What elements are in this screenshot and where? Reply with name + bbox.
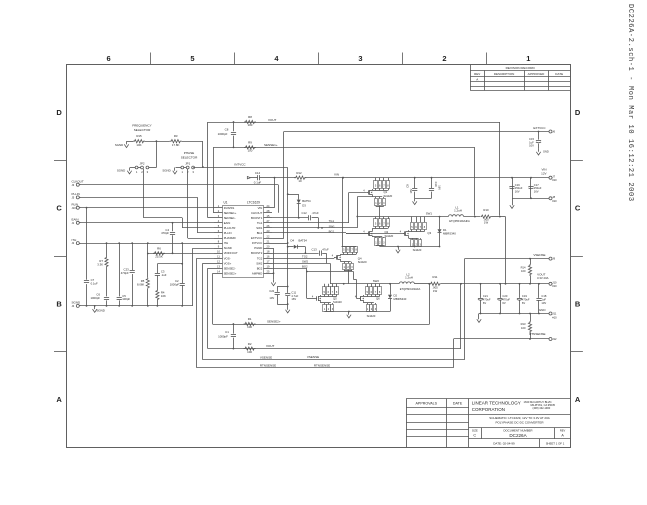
svg-text:AMPMD: AMPMD	[252, 271, 262, 275]
svg-text:BG1: BG1	[257, 231, 263, 235]
svg-text:EXTVCC: EXTVCC	[533, 126, 546, 130]
svg-text:EAIN: EAIN	[224, 221, 231, 225]
svg-text:1000pF: 1000pF	[170, 283, 180, 287]
svg-text:Q6: Q6	[376, 297, 380, 301]
svg-text:REV: REV	[560, 428, 566, 432]
svg-text:BOOST1: BOOST1	[251, 216, 263, 220]
svg-text:Si4420: Si4420	[413, 248, 422, 252]
svg-text:POLYPHASE DC-DC CONVERTER: POLYPHASE DC-DC CONVERTER	[495, 420, 544, 424]
svg-text:J10: J10	[72, 206, 77, 210]
svg-text:C: C	[575, 204, 581, 213]
svg-text:6V: 6V	[483, 301, 486, 305]
svg-text:100: 100	[248, 123, 253, 127]
svg-text:C18: C18	[541, 294, 546, 298]
svg-text:EXTVCC: EXTVCC	[251, 236, 262, 240]
svg-text:LINEAR TECHNOLOGY: LINEAR TECHNOLOGY	[472, 401, 521, 406]
svg-text:10K: 10K	[161, 294, 166, 298]
svg-text:1000pF: 1000pF	[218, 334, 228, 338]
svg-text:VOS-: VOS-	[224, 256, 231, 260]
svg-text:SW2: SW2	[256, 261, 263, 265]
svg-text:3.3K: 3.3K	[97, 263, 103, 267]
svg-text:16V: 16V	[291, 297, 296, 301]
svg-text:C22: C22	[269, 289, 274, 293]
svg-text:D4: D4	[291, 239, 295, 243]
svg-text:C20: C20	[502, 294, 507, 298]
svg-text:Si4420: Si4420	[333, 300, 342, 304]
svg-text:10V: 10V	[269, 296, 274, 300]
svg-text:C19: C19	[522, 294, 527, 298]
svg-text:DATE: DATE	[555, 72, 563, 76]
svg-text:R2: R2	[248, 342, 252, 346]
svg-text:25.5K: 25.5K	[155, 255, 163, 259]
svg-text:1000pF: 1000pF	[91, 296, 101, 300]
svg-text:.47uF: .47uF	[322, 247, 329, 251]
svg-text:17.8K: 17.8K	[172, 143, 180, 147]
svg-text:1: 1	[526, 54, 530, 63]
svg-text:BG2: BG2	[257, 266, 263, 270]
svg-text:R15: R15	[136, 134, 142, 138]
svg-text:SENSE1+: SENSE1+	[224, 211, 237, 215]
svg-text:JP2: JP2	[140, 161, 145, 165]
svg-text:C8: C8	[225, 128, 229, 132]
svg-text:6: 6	[107, 54, 111, 63]
svg-text:5: 5	[190, 54, 194, 63]
svg-text:R9: R9	[248, 140, 252, 144]
svg-text:RUN/SS: RUN/SS	[224, 206, 235, 210]
svg-text:R8: R8	[248, 115, 252, 119]
svg-text:BG2: BG2	[302, 265, 308, 269]
svg-text:RTNSENSE: RTNSENSE	[260, 363, 276, 367]
svg-text:Si4420: Si4420	[358, 260, 367, 264]
svg-text:C14: C14	[255, 171, 261, 175]
svg-text:PLLIN: PLLIN	[72, 192, 80, 196]
svg-text:BOOST2: BOOST2	[251, 251, 263, 255]
svg-text:REV: REV	[474, 72, 480, 76]
svg-text:1W: 1W	[433, 289, 438, 293]
svg-text:A: A	[575, 395, 581, 404]
svg-text:MBRS340: MBRS340	[443, 232, 456, 236]
svg-text:J11: J11	[552, 312, 557, 316]
svg-text:DOCUMENT NUMBER: DOCUMENT NUMBER	[503, 428, 532, 432]
svg-text:#10: #10	[552, 284, 557, 288]
svg-text:16V: 16V	[534, 189, 539, 193]
svg-text:D: D	[56, 108, 62, 117]
svg-text:470uF: 470uF	[522, 298, 530, 302]
svg-text:ETQP6F1R2HFA: ETQP6F1R2HFA	[449, 219, 470, 223]
svg-text:1.2uH: 1.2uH	[454, 209, 462, 213]
svg-text:VOUT: VOUT	[268, 118, 277, 122]
svg-text:2: 2	[442, 54, 446, 63]
svg-text:ITH: ITH	[224, 241, 229, 245]
svg-text:DC226A: DC226A	[509, 433, 527, 438]
svg-text:R12: R12	[296, 171, 302, 175]
svg-text:INTVCC: INTVCC	[252, 241, 262, 245]
svg-text:VIN: VIN	[334, 173, 339, 177]
svg-text:RTNSENSE: RTNSENSE	[529, 332, 545, 336]
svg-text:100: 100	[247, 350, 252, 354]
svg-text:SGND: SGND	[97, 309, 105, 313]
svg-text:.1uF: .1uF	[161, 273, 167, 277]
svg-text:C12: C12	[302, 211, 308, 215]
svg-text:APPROVED: APPROVED	[528, 72, 546, 76]
svg-text:C9: C9	[406, 184, 410, 188]
svg-text:Q3: Q3	[427, 231, 431, 235]
svg-text:C13: C13	[312, 247, 318, 251]
svg-text:PHASMD: PHASMD	[224, 236, 236, 240]
svg-text:Si4420: Si4420	[367, 314, 376, 318]
svg-text:3.3V 20A: 3.3V 20A	[537, 276, 549, 280]
svg-text:0.1uF: 0.1uF	[91, 281, 98, 285]
svg-text:SGND: SGND	[224, 246, 232, 250]
svg-text:CLKOUT: CLKOUT	[251, 211, 263, 215]
svg-text:APPROVALS: APPROVALS	[416, 401, 438, 405]
svg-text:470uF: 470uF	[483, 298, 491, 302]
svg-text:DATE: 02-04-99: DATE: 02-04-99	[493, 441, 515, 445]
svg-text:SW2: SW2	[302, 259, 309, 263]
svg-text:12V: 12V	[541, 171, 546, 175]
svg-text:SENSE2-: SENSE2-	[224, 266, 236, 270]
svg-text:VIN: VIN	[258, 206, 263, 210]
svg-text:CLKOUT: CLKOUT	[72, 179, 84, 183]
svg-text:16V: 16V	[409, 189, 413, 194]
svg-text:MBRS340: MBRS340	[394, 297, 407, 301]
svg-text:(408) 432-1900: (408) 432-1900	[533, 406, 551, 410]
svg-text:SELECTOR: SELECTOR	[134, 128, 151, 132]
svg-text:10K: 10K	[136, 143, 141, 147]
svg-text:DATE: DATE	[453, 401, 463, 405]
svg-text:VSENSE: VSENSE	[307, 355, 319, 359]
svg-text:6V: 6V	[502, 301, 505, 305]
svg-text:R10: R10	[483, 208, 489, 212]
svg-text:VSENSE: VSENSE	[533, 253, 545, 257]
svg-text:R3: R3	[174, 134, 178, 138]
svg-text:EAIN: EAIN	[72, 218, 79, 222]
svg-text:6V: 6V	[522, 301, 525, 305]
svg-text:DESCRIPTION: DESCRIPTION	[494, 72, 515, 76]
svg-text:C11: C11	[291, 290, 296, 294]
svg-text:SENSE1+: SENSE1+	[264, 143, 278, 147]
svg-text:J10: J10	[552, 280, 557, 284]
svg-text:U1: U1	[224, 200, 228, 204]
svg-text:100pF: 100pF	[122, 297, 130, 301]
svg-text:1.2uH: 1.2uH	[405, 276, 413, 280]
svg-text:DC226A-2.sch-1 - Mon Mar 10 16: DC226A-2.sch-1 - Mon Mar 10 16:12:21 200…	[626, 4, 634, 202]
svg-text:SELECTOR: SELECTOR	[181, 155, 198, 159]
svg-text:R14: R14	[521, 265, 526, 269]
svg-text:16V: 16V	[438, 185, 442, 190]
svg-text:TG1: TG1	[257, 221, 263, 225]
svg-text:B: B	[56, 299, 62, 308]
svg-text:D: D	[575, 108, 581, 117]
svg-text:SGND: SGND	[115, 143, 123, 147]
svg-text:1W: 1W	[484, 221, 489, 225]
svg-text:R6: R6	[157, 247, 161, 251]
svg-text:SGND: SGND	[72, 301, 82, 305]
svg-text:#10: #10	[552, 199, 557, 203]
svg-text:INTVCC: INTVCC	[234, 163, 246, 167]
svg-text:SENSE1-: SENSE1-	[224, 216, 236, 220]
svg-text:100: 100	[521, 269, 526, 273]
svg-text:0.1uF: 0.1uF	[254, 181, 262, 185]
svg-text:100: 100	[521, 326, 526, 330]
svg-text:VOS+: VOS+	[224, 261, 232, 265]
svg-text:#10: #10	[552, 178, 557, 182]
svg-text:VSENSE: VSENSE	[260, 355, 272, 359]
svg-text:1uF: 1uF	[541, 298, 546, 302]
svg-text:LTC1629: LTC1629	[247, 200, 260, 204]
svg-text:SW1: SW1	[426, 212, 433, 216]
svg-text:C21: C21	[483, 294, 488, 298]
svg-text:R13: R13	[521, 322, 526, 326]
svg-text:8.06K: 8.06K	[137, 283, 144, 287]
svg-text:SHEET 1 OF 1: SHEET 1 OF 1	[546, 441, 565, 445]
svg-text:PGND: PGND	[254, 246, 262, 250]
svg-text:REVISION RECORD: REVISION RECORD	[506, 66, 536, 70]
svg-text:TG2: TG2	[257, 256, 263, 260]
svg-text:470pF: 470pF	[161, 231, 169, 235]
svg-text:PHASE: PHASE	[184, 151, 195, 155]
svg-text:SW2: SW2	[373, 279, 380, 283]
svg-text:VOUT: VOUT	[266, 344, 275, 348]
svg-text:.47uF: .47uF	[312, 211, 319, 215]
svg-text:J12: J12	[552, 337, 557, 341]
svg-text:10: 10	[298, 179, 302, 183]
svg-text:Si4420: Si4420	[385, 234, 394, 238]
svg-text:GND: GND	[539, 308, 547, 312]
svg-text:C: C	[473, 433, 476, 437]
svg-text:16V: 16V	[515, 189, 520, 193]
svg-text:C1: C1	[225, 330, 229, 334]
svg-text:100: 100	[247, 325, 252, 329]
svg-text:SGND: SGND	[117, 168, 125, 172]
svg-text:470uF: 470uF	[502, 298, 510, 302]
svg-text:A: A	[476, 78, 478, 82]
svg-text:PLLIN: PLLIN	[224, 231, 232, 235]
svg-text:Si4420: Si4420	[384, 194, 393, 198]
svg-text:ETQP6F1R2HFA: ETQP6F1R2HFA	[400, 287, 421, 291]
svg-text:SIZE: SIZE	[472, 428, 478, 432]
svg-text:SENSE2+: SENSE2+	[267, 320, 281, 324]
svg-text:10V: 10V	[541, 301, 546, 305]
svg-text:BAT54: BAT54	[299, 239, 308, 243]
svg-text:470pF: 470pF	[121, 271, 129, 275]
svg-text:B: B	[575, 299, 581, 308]
svg-text:JP1: JP1	[185, 161, 190, 165]
svg-text:SENSE2+: SENSE2+	[224, 271, 237, 275]
svg-text:SW1: SW1	[256, 226, 263, 230]
svg-text:D3: D3	[302, 203, 306, 207]
svg-text:PLLFLTR: PLLFLTR	[224, 226, 236, 230]
svg-text:100: 100	[248, 149, 253, 153]
svg-text:RTNSENSE: RTNSENSE	[314, 363, 330, 367]
svg-text:3: 3	[358, 54, 362, 63]
svg-text:1000pF: 1000pF	[218, 132, 228, 136]
svg-text:SGND: SGND	[162, 168, 170, 172]
svg-text:GND: GND	[543, 150, 549, 154]
svg-text:C: C	[56, 204, 62, 213]
svg-text:#10: #10	[552, 315, 557, 319]
svg-text:10V: 10V	[529, 144, 534, 148]
svg-text:RUN: RUN	[72, 202, 79, 206]
svg-text:A: A	[56, 395, 62, 404]
svg-text:4.7uF: 4.7uF	[291, 294, 298, 298]
svg-text:CORPORATION: CORPORATION	[472, 407, 505, 412]
svg-text:R11: R11	[433, 275, 438, 279]
svg-text:ITH: ITH	[72, 238, 77, 242]
svg-text:TG2: TG2	[302, 254, 308, 258]
svg-text:R1: R1	[248, 317, 252, 321]
svg-text:VDIFFOUT: VDIFFOUT	[224, 251, 238, 255]
